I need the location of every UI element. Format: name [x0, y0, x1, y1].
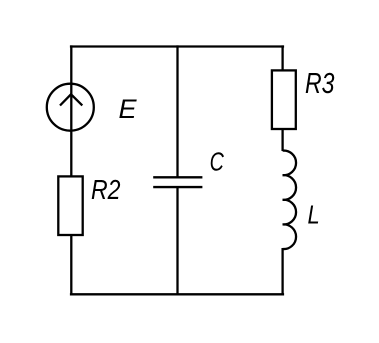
capacitor C top plate [153, 176, 202, 178]
wire right upper [281, 45, 283, 70]
source E circle [47, 84, 94, 131]
svg-text:E: E [119, 94, 138, 124]
wire middle upper [176, 45, 178, 177]
svg-text:R2: R2 [91, 174, 121, 205]
wire left lower [70, 235, 72, 296]
wire bottom [70, 293, 284, 295]
wire middle lower [176, 187, 178, 295]
wire left upper (through source E) [70, 45, 72, 176]
inductor L coil [283, 151, 296, 250]
resistor R3 [272, 70, 296, 129]
source E arrow head [60, 94, 82, 105]
svg-text:C: C [210, 147, 224, 177]
wire right between R3 and L [281, 129, 283, 152]
svg-text:R3: R3 [305, 68, 335, 100]
wire top [70, 45, 284, 47]
wire right lower [281, 248, 283, 295]
svg-text:L: L [308, 200, 320, 230]
resistor R2 [58, 176, 82, 235]
capacitor C bottom plate [153, 186, 202, 188]
